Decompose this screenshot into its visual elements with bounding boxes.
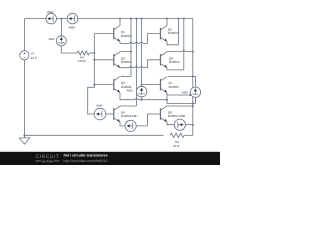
svg-text:10 Ω: 10 Ω xyxy=(173,144,180,148)
transistor Q8 xyxy=(160,108,162,120)
wire vertB xyxy=(183,19,185,70)
svg-text:440 Ω: 440 Ω xyxy=(77,59,86,63)
wire Q2 emitter to Q6 base feeder xyxy=(120,67,130,69)
wire Q2 collector to bus1 xyxy=(120,51,131,53)
wire emitter node to AM6 left xyxy=(167,94,190,96)
ammeter AM3 xyxy=(67,13,78,24)
wire bottom rail xyxy=(24,134,163,136)
wire top +12V rail xyxy=(24,18,46,20)
wire AM1 to R4 xyxy=(61,46,77,53)
wire Q5 emitter to vertA xyxy=(167,42,179,45)
node bus Q3 tee xyxy=(93,84,95,86)
wire bus3 xyxy=(141,19,143,87)
ammeter AM7 xyxy=(125,120,136,131)
ground symbol xyxy=(23,135,25,138)
wire Q4 collector to bus2 end xyxy=(120,105,137,107)
svg-text:2N2222: 2N2222 xyxy=(121,60,132,64)
resistor R2 xyxy=(170,133,184,137)
transistor Q6 xyxy=(160,54,162,66)
wire bus1 xyxy=(130,19,132,77)
wire base bus xyxy=(88,34,95,114)
wire Q4 emitter to AM7 xyxy=(120,122,125,126)
wire Q8 emitter to AM8 xyxy=(167,122,174,125)
wire Q3 collector to bus1 end xyxy=(121,75,131,77)
wire Q7 collector to AM6 top xyxy=(168,75,193,77)
wire vertA xyxy=(178,19,180,45)
wire AM2/AM3 tap down to AM1 xyxy=(60,19,62,36)
ammeter AM4 xyxy=(94,108,106,120)
wire Q5 collector to rail xyxy=(166,19,168,26)
svg-text:2N3055: 2N3055 xyxy=(168,31,179,35)
transistor Q2 xyxy=(113,54,115,66)
resistor R4 xyxy=(77,51,89,55)
svg-text:2N3055: 2N3055 xyxy=(168,85,179,89)
svg-text:AM7: AM7 xyxy=(132,114,139,118)
wire Q3 emitter to node row xyxy=(120,93,135,100)
svg-text:2N3055: 2N3055 xyxy=(168,114,179,118)
svg-text:2N2222: 2N2222 xyxy=(121,34,132,38)
svg-text:AM6: AM6 xyxy=(182,90,189,94)
wire Q6 collector to right rail xyxy=(167,51,182,53)
svg-text:2N3055: 2N3055 xyxy=(169,60,180,64)
ammeter AM6 xyxy=(190,87,200,97)
node bus Q2 tee xyxy=(93,59,95,61)
svg-text:AM3: AM3 xyxy=(69,26,76,30)
svg-text:◂LAB▸: ◂LAB▸ xyxy=(42,159,53,163)
wire Q1 collector to rail xyxy=(119,19,121,26)
transistor Q3 xyxy=(113,79,115,91)
transistor Q5 xyxy=(160,28,162,40)
wire emitter node to AM6 bottom xyxy=(167,103,195,105)
ammeter AM8 xyxy=(174,119,185,130)
svg-text:AM2: AM2 xyxy=(47,10,54,14)
svg-text:fml / circuito transistores: fml / circuito transistores xyxy=(64,154,108,158)
wire AM5 to emitter node xyxy=(141,97,143,100)
node rail-AM1 junction xyxy=(60,18,62,20)
svg-text:12 V: 12 V xyxy=(31,56,38,60)
svg-text:http://circuitlab.com/c/hd6262: http://circuitlab.com/c/hd6262 xyxy=(64,159,108,163)
svg-text:AM1: AM1 xyxy=(49,37,56,41)
wire Q1 emitter to Q5 base feeder xyxy=(120,42,130,44)
transistor Q4 xyxy=(113,108,115,120)
svg-text:AM8: AM8 xyxy=(179,114,186,118)
svg-text:AM4: AM4 xyxy=(96,103,103,107)
transistor Q1 xyxy=(113,28,115,40)
footer bar xyxy=(0,152,220,165)
wire bus3 to Q7 base xyxy=(142,84,161,86)
ammeter AM1 xyxy=(56,36,66,46)
voltage source V1 xyxy=(23,19,25,51)
wire Q8 collector to right rail xyxy=(167,105,193,107)
wire Q7 emitter node column xyxy=(166,93,168,104)
svg-text:AM5: AM5 xyxy=(126,88,132,92)
wire AM7 to Q8 base feeder xyxy=(136,114,160,126)
wire AM4 to Q4 base xyxy=(106,113,114,115)
wire AM8 to right rail xyxy=(185,124,192,126)
node ground junction xyxy=(23,134,25,136)
svg-text:2N2222: 2N2222 xyxy=(121,114,132,118)
node bus3 Q7 base tee xyxy=(141,84,143,86)
ammeter AM2 xyxy=(46,13,57,24)
ammeter AM5 xyxy=(136,86,147,97)
wire R4 to base bus xyxy=(89,52,94,54)
wire Q6 emitter to vertB xyxy=(167,68,184,70)
wire R2 to right rail xyxy=(184,134,193,136)
transistor Q7 xyxy=(160,79,162,91)
wire bus2 xyxy=(136,19,138,106)
wire top-right corner down xyxy=(192,19,194,136)
